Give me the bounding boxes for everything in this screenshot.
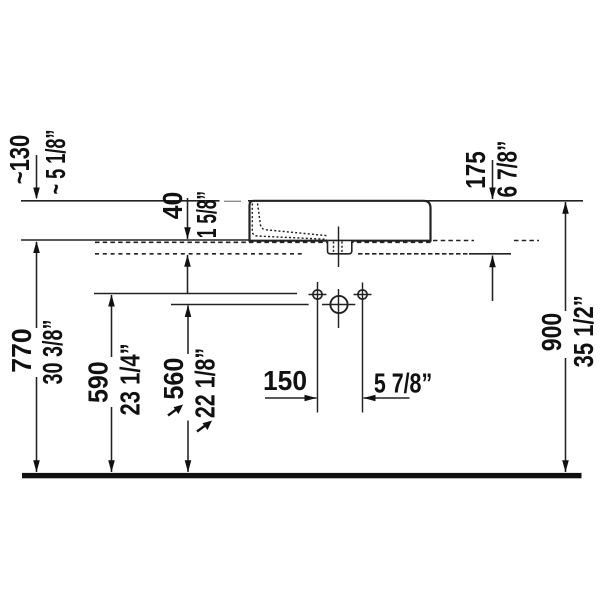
- dim 175 lower line: [492, 256, 494, 302]
- counter underside dashed mid: [358, 253, 469, 255]
- svg-text:35 1/2”: 35 1/2”: [568, 295, 599, 367]
- dim 900 line upper: [565, 202, 567, 311]
- washbasin outline: [250, 201, 431, 241]
- arrow 40 down: [184, 227, 191, 239]
- mixer axis line B right part: [322, 304, 355, 306]
- counter dashed overlay left: [95, 241, 431, 243]
- arrow 770 up: [33, 241, 40, 253]
- counter underside solid right: [469, 253, 511, 255]
- arrow 175 down: [489, 188, 496, 200]
- arrow 590 up: [108, 295, 115, 307]
- drain box: [328, 241, 352, 254]
- counter dashed right segment 2: [514, 240, 539, 242]
- arrow 175 up lower: [489, 255, 496, 267]
- mixer hole centerline segment: [338, 289, 340, 328]
- rim level light dash: [224, 200, 241, 202]
- hole axis line A: [94, 293, 297, 295]
- arrow ~130 down: [33, 188, 40, 200]
- hole crosshair right: [354, 294, 372, 296]
- leader arrow 22 1/8: [197, 421, 212, 432]
- arrow 560 up: [185, 305, 192, 317]
- svg-text:40: 40: [156, 192, 188, 220]
- svg-text:~130: ~130: [4, 135, 35, 185]
- svg-text:1 5/8”: 1 5/8”: [190, 191, 221, 238]
- dim 40 upper line: [187, 198, 189, 239]
- svg-text:900: 900: [537, 313, 568, 352]
- svg-text:23 1/4”: 23 1/4”: [115, 343, 146, 415]
- arrow 560 down: [185, 460, 192, 472]
- arrow 40 up lower: [184, 255, 191, 267]
- drain centerline upper segment: [338, 227, 340, 268]
- drain pipe dotted left: [333, 242, 335, 253]
- dim 40 lower line: [187, 255, 189, 293]
- basin inner wall dotted left outer: [252, 204, 327, 240]
- rim level line left: [21, 200, 220, 202]
- svg-text:6 7/8”: 6 7/8”: [492, 141, 523, 198]
- svg-text:5 7/8”: 5 7/8”: [374, 368, 432, 400]
- svg-text:560: 560: [158, 358, 190, 400]
- dim 590 line lower: [111, 407, 113, 472]
- right faucet hole: [358, 290, 367, 299]
- leader arrow 560: [168, 405, 183, 416]
- mixer axis line B: [171, 304, 309, 306]
- extension line right hole: [362, 283, 364, 413]
- dim 900 line lower: [565, 358, 567, 472]
- arrow 590 down: [108, 460, 115, 472]
- dim 150 line left: [265, 397, 317, 399]
- counter underside dashed left: [95, 253, 305, 255]
- dim 560 line upper: [187, 306, 189, 355]
- svg-text:30 3/8”: 30 3/8”: [37, 320, 68, 385]
- arrow 900 down: [562, 460, 569, 472]
- svg-text:175: 175: [460, 151, 491, 189]
- svg-text:22 1/8”: 22 1/8”: [190, 348, 222, 418]
- drain pipe dotted right: [341, 242, 343, 253]
- floor line: [22, 473, 582, 478]
- arrow 5 7/8 left: [364, 395, 376, 402]
- rim level line right: [248, 200, 583, 202]
- arrow 150 right: [305, 395, 317, 402]
- dim 5 7/8 line right: [364, 397, 410, 399]
- dim ~130 line: [36, 155, 38, 198]
- counter dashed right segment 1: [433, 240, 474, 242]
- arrow 770 down: [33, 460, 40, 472]
- counter top solid line: [21, 239, 431, 241]
- dim 770 line upper: [36, 242, 38, 328]
- arrow 900 up: [562, 202, 569, 214]
- dim 560 line lower: [187, 421, 189, 473]
- dim 770 line lower: [36, 377, 38, 472]
- svg-text:590: 590: [82, 361, 114, 403]
- svg-text:150: 150: [263, 364, 307, 396]
- extension line left hole: [317, 282, 319, 413]
- basin inner wall dotted left inner: [258, 204, 328, 236]
- dim 590 line upper: [111, 295, 113, 357]
- left faucet hole: [313, 290, 322, 299]
- svg-text:~ 5 1/8”: ~ 5 1/8”: [41, 130, 72, 195]
- dim 175 upper line: [492, 160, 494, 199]
- hole crosshair left: [309, 294, 327, 296]
- svg-text:770: 770: [5, 328, 37, 372]
- mixer hole: [330, 296, 347, 313]
